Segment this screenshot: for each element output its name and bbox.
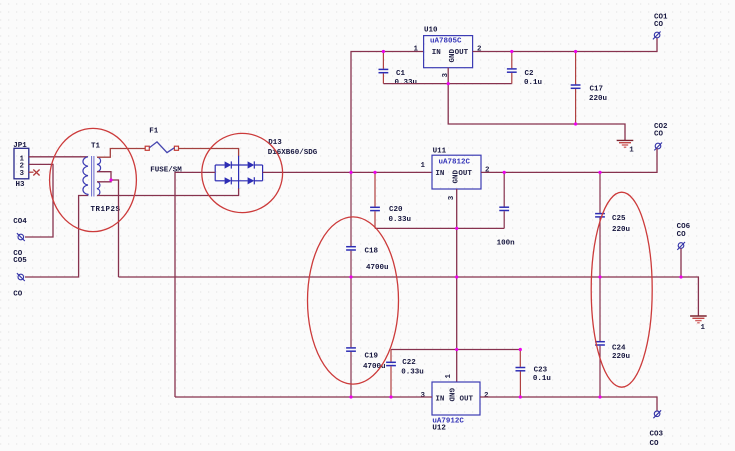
svg-text:0.33u: 0.33u	[401, 368, 424, 376]
wire center tap to mid rail	[111, 180, 119, 277]
capacitor C2	[507, 52, 542, 88]
capacitor C22	[386, 350, 424, 398]
svg-text:100n: 100n	[497, 239, 516, 247]
connector CO3	[650, 410, 664, 448]
wire JP1 pin3 stub	[29, 171, 34, 173]
svg-text:1: 1	[445, 374, 453, 379]
highlight ellipse around D13	[202, 133, 283, 212]
wire CO6 to mid rail	[680, 249, 682, 278]
regulator U11	[421, 147, 491, 200]
svg-text:GND: GND	[453, 169, 461, 183]
capacitor C17	[571, 52, 607, 125]
ground symbol (U10 rail)	[617, 140, 635, 154]
svg-text:C20: C20	[389, 206, 403, 214]
wire mid ground rail	[119, 277, 699, 316]
svg-text:CO4: CO4	[13, 218, 27, 226]
svg-text:4700u: 4700u	[366, 264, 389, 272]
capacitor 100n	[497, 172, 516, 247]
svg-text:0.1u: 0.1u	[524, 79, 542, 87]
wire U11 GND vertical to U12	[456, 189, 458, 382]
svg-text:0.1u: 0.1u	[533, 375, 551, 383]
svg-text:C2: C2	[525, 70, 535, 78]
regulator U10	[414, 27, 483, 78]
svg-text:CO: CO	[13, 291, 23, 299]
wire JP1 pin1 to T1 primary top	[29, 156, 88, 158]
svg-text:1: 1	[701, 324, 706, 332]
svg-text:1: 1	[414, 46, 419, 54]
wire bridge minus to negative vertical	[175, 172, 215, 397]
svg-text:C24: C24	[612, 344, 626, 352]
svg-text:CO3: CO3	[650, 430, 664, 438]
highlight ellipse around T1	[50, 128, 137, 231]
svg-text:U11: U11	[433, 147, 447, 155]
wire C1-C2 ground rail	[383, 83, 511, 85]
svg-text:220u: 220u	[612, 353, 630, 361]
connector JP1 box	[13, 142, 29, 189]
svg-text:GND: GND	[447, 388, 455, 402]
T1 secondary top winding	[97, 157, 101, 171]
svg-text:C1: C1	[396, 70, 406, 78]
svg-text:CO5: CO5	[13, 257, 27, 265]
capacitor C20	[370, 172, 411, 228]
svg-text:GND: GND	[449, 48, 457, 62]
wire T1 secondary bottom to bridge	[97, 188, 239, 196]
svg-text:1: 1	[629, 147, 634, 155]
wire U10 output rail to CO1	[473, 38, 657, 52]
svg-text:TR1P2S: TR1P2S	[91, 206, 121, 214]
svg-text:C17: C17	[590, 86, 604, 94]
svg-text:C22: C22	[402, 359, 416, 367]
svg-text:C23: C23	[534, 366, 548, 374]
wire U11 output rail to CO2	[481, 149, 657, 173]
svg-text:CO6: CO6	[677, 223, 691, 231]
wire negative rail left of U12	[175, 396, 432, 398]
wire unregulated rail up to U10 input	[351, 52, 424, 173]
svg-text:2: 2	[485, 166, 490, 174]
capacitor C18	[346, 172, 388, 277]
T1 core	[91, 156, 93, 197]
svg-text:uA7805C: uA7805C	[430, 38, 462, 46]
svg-text:IN: IN	[435, 170, 444, 178]
svg-text:2: 2	[477, 46, 482, 54]
connector CO2	[654, 123, 668, 150]
svg-text:220u: 220u	[612, 226, 630, 234]
connector CO1	[653, 13, 668, 39]
svg-text:C25: C25	[612, 215, 626, 223]
wire fuse to bridge AC1	[179, 149, 239, 157]
T1 secondary bottom winding	[97, 182, 100, 196]
svg-text:OUT: OUT	[460, 395, 474, 403]
capacitor C24	[595, 277, 630, 397]
svg-text:IN: IN	[435, 395, 444, 403]
svg-text:IN: IN	[432, 49, 441, 57]
wire CO5 to T1 primary bottom	[25, 196, 88, 278]
svg-text:CO: CO	[677, 231, 687, 239]
wire C20-100n ground link	[375, 227, 504, 229]
svg-text:0.33u: 0.33u	[395, 79, 418, 87]
svg-text:F1: F1	[149, 128, 159, 136]
svg-text:U12: U12	[432, 425, 446, 433]
fuse F1	[145, 128, 182, 175]
svg-text:2: 2	[484, 392, 489, 400]
wire bridge plus to U11 input rail	[263, 171, 432, 173]
wire U12 output rail to CO3	[480, 397, 657, 411]
connector CO6	[677, 223, 691, 250]
regulator U12	[421, 374, 490, 433]
svg-text:FUSE/SM: FUSE/SM	[150, 166, 182, 174]
svg-text:CO: CO	[654, 131, 664, 139]
wire JP1 pin2 to CO4	[25, 164, 53, 237]
svg-text:D13: D13	[268, 139, 282, 147]
svg-text:CO: CO	[654, 21, 664, 29]
svg-text:3: 3	[19, 170, 24, 178]
connector CO5 symbol	[17, 273, 25, 281]
wire C22-C23 ground link	[391, 349, 520, 351]
svg-text:CO: CO	[650, 440, 660, 448]
capacitor C23	[516, 350, 551, 398]
svg-text:1: 1	[421, 162, 426, 170]
no-connect X on JP1 pin3	[33, 170, 39, 176]
capacitor C19	[346, 277, 385, 397]
svg-text:C19: C19	[365, 353, 379, 361]
svg-text:JP1: JP1	[13, 142, 27, 150]
node center tap junction	[109, 178, 112, 181]
ground symbol (mid rail)	[690, 316, 707, 332]
svg-text:3: 3	[448, 195, 456, 200]
bridge rectifier D13	[215, 139, 318, 189]
capacitor C25	[595, 172, 630, 277]
svg-text:uA7812C: uA7812C	[439, 159, 471, 167]
capacitor C1	[379, 52, 418, 87]
svg-text:0.33u: 0.33u	[389, 216, 412, 224]
T1 primary winding	[83, 157, 88, 196]
highlight ellipse around C25 C24	[591, 192, 652, 387]
wire U10 GND pin to ground	[448, 68, 625, 140]
node junction dots	[349, 50, 682, 399]
svg-text:3: 3	[421, 392, 426, 400]
svg-text:220u: 220u	[589, 95, 607, 103]
svg-text:U10: U10	[424, 27, 438, 35]
svg-text:H3: H3	[16, 181, 26, 189]
wire T1 secondary top to fuse	[97, 149, 145, 158]
transformer T1	[83, 142, 121, 214]
connector CO4 symbol	[17, 233, 25, 241]
svg-text:T1: T1	[91, 142, 101, 150]
wire T1 center tap	[97, 172, 111, 182]
svg-text:C18: C18	[365, 247, 379, 255]
highlight ellipse around C18 C19	[308, 217, 399, 384]
